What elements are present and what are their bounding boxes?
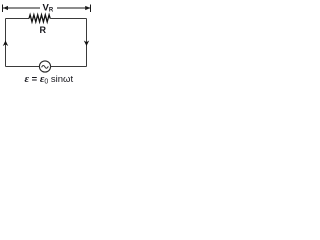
- wire right vertical: [86, 19, 88, 67]
- current arrow down (right wire): [84, 41, 89, 47]
- AC source sine symbol: [42, 65, 49, 68]
- svg-text:VR: VR: [43, 3, 54, 14]
- dimension arrowhead left: [3, 6, 8, 10]
- current arrow up (left wire): [3, 41, 8, 47]
- wire bottom left: [6, 66, 40, 68]
- dimension bar right: [90, 5, 92, 13]
- dimension line left segment: [3, 7, 40, 9]
- AC source: [39, 61, 50, 72]
- dimension bar left: [2, 5, 4, 13]
- wire left vertical: [5, 19, 7, 67]
- wire bottom right: [50, 66, 86, 68]
- dimension arrowhead right: [85, 6, 90, 10]
- wire top left: [6, 18, 30, 20]
- resistor R: [29, 15, 50, 22]
- svg-text:ε = ε0 sinωt: ε = ε0 sinωt: [25, 73, 74, 84]
- svg-text:R: R: [40, 25, 47, 35]
- wire top right: [50, 18, 86, 20]
- dimension line right segment: [57, 7, 91, 9]
